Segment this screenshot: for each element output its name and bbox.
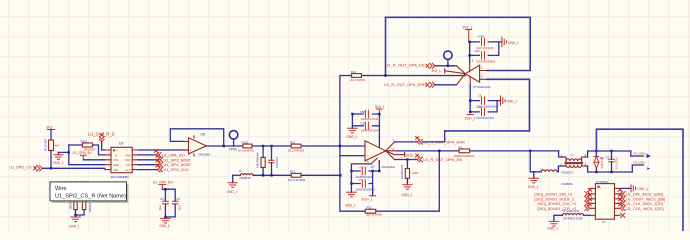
node 372.6,171 — [371, 170, 373, 172]
power port 3V3+_1 (below caps) — [362, 196, 376, 202]
svg-text:U1_OPA_5V: U1_OPA_5V — [73, 151, 93, 155]
svg-text:GND: GND — [113, 163, 119, 167]
net label U1_DOUT_/MCU — [618, 193, 665, 201]
wire net U1_SPI2_CS_R — [43, 167, 105, 169]
op-amp U8 — [183, 132, 210, 156]
wire R120 to U10 minus input — [252, 145, 365, 147]
wire U11 top cap rails — [470, 42, 499, 63]
net label U1_SPI2_MOSI — [138, 159, 190, 167]
wire 3V3 rail to caps — [352, 114, 379, 126]
svg-text:750315371: 750315371 — [561, 170, 575, 174]
svg-text:Wire: Wire — [55, 186, 67, 192]
diode D2 (TVS) — [594, 151, 604, 172]
capacitor C56 — [159, 197, 168, 211]
svg-text:L8 aeWKH224: L8 aeWKH224 — [563, 209, 580, 213]
node 469.7,55.4 — [469, 54, 471, 56]
ground GND_1 (U11 bottom, sideways) — [497, 96, 517, 105]
svg-text:2K2/1%/W68: 2K2/1%/W68 — [366, 213, 382, 217]
wire box2 loop (output pin2 of U11) — [445, 79, 530, 131]
node 165.4,189.2 — [164, 188, 166, 190]
svg-text:R1: R1 — [459, 145, 463, 149]
ground GND_1 (bottom left) — [69, 215, 80, 229]
wire secondary top rail — [585, 151, 631, 157]
svg-text:10uF/16V/1226: 10uF/16V/1226 — [356, 175, 374, 179]
ground GND_1 (below caps) — [345, 192, 356, 207]
svg-text:B: B — [116, 153, 118, 157]
svg-text:L?: L? — [571, 153, 575, 157]
resistor R126 100R — [400, 160, 418, 185]
svg-text:100nF/50V/0603: 100nF/50V/0603 — [476, 59, 496, 63]
svg-text:+C64: +C64 — [478, 35, 485, 39]
svg-text:4K7: 4K7 — [55, 144, 60, 148]
wire U12 pin to ground — [620, 187, 631, 189]
svg-text:OM9868A: OM9868A — [561, 182, 573, 186]
capacitor C61 — [351, 178, 375, 191]
svg-text:SMAJ5.0A: SMAJ5.0A — [601, 157, 604, 169]
resistor R115 0R1 — [69, 140, 105, 155]
svg-text:U1_SPI2_CS_R: U1_SPI2_CS_R — [10, 166, 37, 170]
node 470.2,111.9 — [469, 111, 471, 113]
capacitor C71 — [606, 151, 618, 172]
resistor R121 (vertical) — [256, 146, 266, 175]
svg-text:4.7uF/25V: 4.7uF/25V — [615, 157, 618, 169]
ground GND_1 (inductor) — [227, 175, 238, 194]
svg-text:[3K1]_3DV6/1_CLK_+3: [3K1]_3DV6/1_CLK_+3 — [538, 202, 576, 206]
svg-text:200R/1%/W0603: 200R/1%/W0603 — [454, 154, 475, 158]
power 3V3 — [46, 126, 55, 130]
node CS junction — [50, 167, 52, 169]
wire box1 loop (output pin1 of U11) — [386, 17, 531, 70]
net label U1_SPI2_MISO — [138, 154, 190, 162]
svg-text:ADAC7052RBZ: ADAC7052RBZ — [111, 175, 130, 179]
svg-text:U1_OPA_5V+: U1_OPA_5V+ — [153, 180, 174, 184]
capacitor C66 — [476, 93, 497, 108]
ground GND_1 (U11 top, sideways) — [499, 37, 519, 46]
ground GND_1 (left) — [53, 152, 64, 165]
svg-text:R12: R12 — [367, 206, 373, 210]
wire feedback loop U8 — [170, 129, 223, 146]
svg-text:SDI: SDI — [126, 163, 131, 167]
svg-text:U8: U8 — [201, 132, 205, 136]
wire secondary bottom rail — [585, 166, 633, 172]
svg-text:GND_1: GND_1 — [69, 225, 80, 229]
node junction 68.8,152.4 — [68, 151, 70, 153]
svg-text:U1_OPA_5V+: U1_OPA_5V+ — [162, 153, 186, 157]
svg-text:FERRITE: FERRITE — [240, 176, 251, 180]
svg-text:U? OPA4e622a: U? OPA4e622a — [473, 86, 491, 89]
svg-text:U1_SPI2_CLK: U1_SPI2_CLK — [164, 168, 189, 172]
node 596.4,172 — [595, 171, 597, 173]
svg-text:L6: L6 — [239, 169, 243, 173]
svg-text:+: + — [473, 78, 475, 82]
svg-text:U1_SPI2_CS_R (Net Name): U1_SPI2_CS_R (Net Name) — [55, 193, 126, 199]
ground GND_1 (L8) — [547, 221, 558, 230]
svg-text:10nF/50V: 10nF/50V — [275, 156, 279, 168]
harness arrow FV_GEN+ — [647, 154, 651, 158]
svg-text:U1_R_OUT_OPA_ERR: U1_R_OUT_OPA_ERR — [384, 82, 426, 87]
svg-text:A: A — [116, 148, 118, 152]
svg-text:U1_R_OUT_OPA_EN: U1_R_OUT_OPA_EN — [386, 63, 425, 68]
svg-text:100nF/50V/0603: 100nF/50V/0603 — [361, 129, 381, 133]
wire 3V3 to R116 — [50, 130, 52, 141]
svg-text:3V3+_1: 3V3+_1 — [362, 197, 373, 201]
node 271.5,146 — [270, 145, 272, 147]
svg-text:R120: R120 — [242, 140, 249, 144]
net label ISO_DIN (left row2) — [535, 189, 592, 197]
svg-text:R115: R115 — [81, 140, 88, 144]
svg-text:GND_1: GND_1 — [507, 100, 518, 104]
capacitor C57 — [172, 197, 181, 211]
test point TP23 — [444, 51, 452, 66]
net label U1_DIN_/MCU — [618, 189, 663, 197]
tooltip shadow — [52, 184, 129, 203]
net label U1_R_OUT_OPA_EN (top) — [386, 63, 435, 69]
node 611.5,151 — [610, 150, 612, 152]
svg-text:C7: C7 — [606, 156, 610, 160]
svg-text:TPT05914: TPT05914 — [596, 180, 609, 184]
power 3V3_1 (U11 supply) — [463, 26, 473, 42]
node 263.1,146 — [262, 145, 264, 147]
svg-text:FV_GEN-: FV_GEN- — [634, 161, 646, 165]
wire main row to transformer pin1 — [559, 151, 565, 157]
node 351.4,183.5 — [350, 182, 352, 184]
svg-text:3V3+_1: 3V3+_1 — [465, 116, 476, 120]
node 530.2,150.85 — [529, 150, 531, 152]
svg-text:GND_1: GND_1 — [345, 203, 356, 207]
net label U1_CLK_/MCU — [618, 198, 663, 206]
IC U12 isolator — [590, 180, 620, 224]
svg-text:C59: C59 — [360, 122, 365, 126]
svg-text:2K1/1%/0402: 2K1/1%/0402 — [238, 149, 255, 153]
inductor L7 — [540, 168, 557, 172]
net label U1_R_OUT_OPA_EN (middle) — [395, 154, 463, 162]
transformer T1 — [561, 153, 587, 186]
node 447.9,65.8 — [447, 65, 449, 67]
svg-text:U1_DIN_/MCU_1[DB]: U1_DIN_/MCU_1[DB] — [626, 193, 663, 197]
svg-text:OM-PBGA-BUM*: OM-PBGA-BUM* — [563, 217, 583, 221]
node 469.7,41.9 — [469, 41, 471, 43]
node 611.5,172 — [610, 171, 612, 173]
svg-text:Y: Y — [126, 148, 128, 152]
svg-text:GND_1: GND_1 — [402, 193, 413, 197]
op-amp U10 — [365, 138, 397, 169]
svg-text:+: + — [190, 149, 192, 153]
node 439.3,150.85 — [438, 150, 440, 152]
wire bottom rail — [253, 174, 291, 176]
svg-text:3V3_1: 3V3_1 — [375, 105, 385, 109]
svg-text:100R: 100R — [412, 171, 418, 175]
svg-text:U1_SPI2_MOSI: U1_SPI2_MOSI — [164, 163, 191, 167]
node 407.4,159.5 — [406, 158, 408, 160]
net label U1_R_OUT_OPA_ERR (top) — [384, 82, 435, 87]
wire resistors to ground — [76, 210, 85, 215]
svg-text:16V/W/1225: 16V/W/1225 — [400, 164, 404, 179]
capacitor C59 — [360, 122, 380, 133]
resistor R (below tooltip, left) — [69, 199, 78, 209]
node 165.4,216.9 — [164, 216, 166, 218]
svg-text:GND_1: GND_1 — [53, 161, 64, 165]
svg-text:R116 4K7: R116 4K7 — [44, 138, 48, 151]
wire main output row — [397, 150, 559, 152]
svg-text:+5V: +5V — [597, 187, 602, 190]
svg-text:+C?: +C? — [359, 166, 365, 170]
svg-text:U1_CLR_/MCU_1[3C]: U1_CLR_/MCU_1[3C] — [626, 207, 664, 211]
net label ISO_CLR (left row5) — [538, 203, 592, 211]
svg-text:GND_1: GND_1 — [547, 227, 558, 231]
svg-text:[3K1]_3DV6/1_DOUT_3: [3K1]_3DV6/1_DOUT_3 — [535, 198, 575, 202]
svg-text:U?: U? — [371, 165, 375, 169]
wire plus input from feedback — [340, 155, 365, 157]
wire V- rail — [351, 161, 379, 171]
resistor R123 — [288, 170, 306, 182]
svg-text:GND_1: GND_1 — [508, 41, 519, 45]
node 352.4,114 — [351, 113, 353, 115]
wire feedback ladder row — [340, 76, 465, 212]
ground GND_1 (R126) — [402, 185, 413, 198]
tooltip box — [50, 182, 127, 201]
svg-text:1K/0402: 1K/0402 — [88, 202, 92, 212]
wire L8 to ground — [554, 215, 563, 221]
resistor R120 — [238, 140, 255, 152]
net label U1_DAC_R_D — [88, 131, 115, 141]
svg-text:[3K1]_3DV6/1_DIN_+3: [3K1]_3DV6/1_DIN_+3 — [535, 193, 573, 197]
svg-text:1K1.5 Pc/W63: 1K1.5 Pc/W63 — [288, 178, 306, 182]
svg-text:R12: R12 — [290, 170, 296, 174]
svg-text:U1_SPI2_MISO: U1_SPI2_MISO — [164, 158, 191, 162]
svg-text:100n: 100n — [179, 204, 182, 210]
svg-text:GND_1: GND_1 — [528, 185, 539, 189]
wire R123 to feedback vertical — [301, 174, 340, 176]
node 379.3,171 — [378, 170, 380, 172]
wire EN to U11 input — [435, 65, 457, 67]
IC U9 DAC — [105, 141, 138, 179]
svg-text:U1_DOUT_/MCU_[DB]: U1_DOUT_/MCU_[DB] — [626, 197, 665, 201]
svg-text:1K1.5 W/063: 1K1.5 W/063 — [350, 78, 366, 82]
capacitor C65 — [475, 49, 496, 63]
wire Y output to op-amp U8 plus input — [138, 149, 188, 151]
node 470.2,100.6 — [469, 99, 471, 101]
ground GND_1 (5V caps) — [159, 217, 170, 228]
capacitor C63 (vertical) — [269, 146, 279, 175]
net label U1_OPA_5V+ — [138, 150, 186, 158]
svg-text:U?: U? — [602, 220, 606, 224]
svg-text:OPA2388A: OPA2388A — [199, 153, 211, 156]
pin lead (U11 input a) — [457, 66, 466, 74]
svg-text:U1_CLK_/MCU_1[3C]: U1_CLK_/MCU_1[3C] — [626, 202, 663, 206]
resistor R125 200R — [454, 145, 475, 158]
power port 3V3+_1 (U11 V-) — [465, 115, 476, 121]
ground GND_1 (U10 top cluster) — [346, 126, 357, 139]
svg-text:OPA4e622a: OPA4e622a — [382, 166, 396, 169]
node 339.9,146 — [339, 145, 341, 147]
svg-text:L7: L7 — [540, 168, 544, 172]
svg-text:CLK: CLK — [125, 168, 130, 172]
svg-text:C6: C6 — [478, 105, 482, 109]
capacitor C60 — [356, 166, 374, 179]
svg-text:GND_1: GND_1 — [638, 187, 649, 191]
svg-text:C?: C? — [359, 178, 363, 182]
svg-text:TP24: TP24 — [229, 147, 237, 151]
power 3V3_1 (U10 supply) — [375, 105, 385, 114]
svg-text:C65: C65 — [475, 49, 480, 53]
svg-text:GND_1: GND_1 — [227, 190, 238, 194]
wire U10 V- pin — [351, 164, 371, 192]
node 223.7,146 — [223, 145, 225, 147]
resistor R116 4K7 — [44, 138, 60, 151]
power port U1_OPA_5V+ (caps cluster) — [153, 180, 174, 189]
node 351.4,171 — [350, 170, 352, 172]
net label ISO_DOUT (left row3) — [535, 193, 592, 201]
resistor R122 — [288, 140, 305, 152]
wire output FV_GEN- — [632, 165, 643, 172]
wire U8 output — [206, 145, 243, 147]
ground GND_1 (U12, sideways) — [631, 185, 648, 192]
svg-text:C5: C5 — [177, 197, 181, 201]
svg-text:3V3_1: 3V3_1 — [432, 69, 441, 73]
svg-text:-: - — [190, 140, 191, 144]
svg-text:U9: U9 — [119, 141, 123, 145]
wire U11 V- cluster rails — [470, 85, 497, 112]
svg-text:16K/1%/0402: 16K/1%/0402 — [256, 152, 260, 168]
wire feedback vertical (long) — [385, 17, 387, 75]
wire 5V to VDD pin — [83, 159, 105, 161]
net label ISO_CLK (left row4) — [538, 198, 592, 206]
svg-text:16nF/50V/1210: 16nF/50V/1210 — [476, 116, 494, 120]
pin lead (U11 input b) — [457, 74, 466, 85]
svg-text:C1R: C1R — [113, 168, 118, 172]
wire R116 to CS net — [50, 151, 52, 169]
svg-text:GND_1: GND_1 — [159, 224, 170, 228]
capacitor C64 — [476, 35, 494, 50]
svg-text:C6: C6 — [478, 93, 482, 97]
net label U1_R_OUT_OPA_ERR (middle) — [395, 137, 466, 145]
wire 5V cap rail — [162, 189, 175, 217]
net label U1_SPI2_CLK — [138, 164, 188, 172]
wire isolation loop — [596, 129, 683, 231]
svg-text:10uF/16V/1210: 10uF/16V/1210 — [361, 117, 379, 121]
op-amp U11 (mirrored) — [465, 59, 490, 89]
node 263.1,175.3 — [262, 174, 264, 176]
test point TP24 — [229, 131, 238, 152]
svg-text:2K1/1%/0402: 2K1/1%/0402 — [288, 149, 305, 153]
node 596.4,151 — [595, 150, 597, 152]
svg-text:C5: C5 — [160, 197, 164, 201]
svg-text:10uF: 10uF — [159, 204, 162, 210]
inductor L6 — [233, 169, 253, 180]
resistor R (below tooltip, right) — [82, 200, 91, 213]
node 271.5,175.3 — [270, 174, 272, 176]
wire L8 to U12 pin — [584, 214, 591, 216]
capacitor C67 — [476, 105, 494, 120]
node 340.4,175.3 — [339, 174, 341, 176]
wire primary return via inductor — [530, 151, 565, 172]
svg-text:VDD: VDD — [125, 153, 131, 157]
resistor R127 (bottom) — [365, 206, 382, 217]
svg-text:VSS: VSS — [113, 158, 118, 162]
svg-text:C58: C58 — [360, 110, 365, 114]
power pin 3V3+_1 (U10) — [395, 153, 418, 158]
wire cap rail to power bar — [372, 171, 374, 196]
node 75.5,215 — [74, 214, 76, 216]
svg-text:R12: R12 — [290, 140, 296, 144]
svg-text:+: + — [367, 154, 369, 158]
net label U1_CLR_/MCU — [618, 203, 663, 211]
svg-text:FV_GEN+: FV_GEN+ — [634, 152, 647, 156]
wire output FV_GEN+ — [631, 151, 644, 156]
net label U1_SPI2_CS_R — [10, 165, 43, 171]
wire ERR to U11 input — [435, 84, 457, 86]
wire ERR vertical from box2 — [423, 131, 445, 142]
wire V+ to U10 — [378, 126, 380, 147]
no-ERC cross — [621, 213, 625, 217]
wire vertical to GND pin — [69, 145, 105, 165]
capacitor C58 — [360, 110, 379, 121]
svg-text:GND_1: GND_1 — [346, 135, 357, 139]
resistor R124 — [350, 70, 366, 82]
node 379.4,114 — [378, 113, 380, 115]
wire ground to junction — [58, 151, 68, 153]
power port U1_OPA_5V — [73, 151, 93, 160]
svg-text:R12: R12 — [351, 70, 357, 74]
svg-text:SDO: SDO — [125, 158, 131, 162]
wire DAC_R_D to pin A — [102, 142, 105, 151]
inductor L8 (U12 input) — [562, 209, 583, 221]
power pin 3V3_1 (U11 left) — [432, 69, 466, 74]
node 385.5,75.5 — [384, 74, 386, 76]
harness arrow FV_GEN- — [647, 167, 650, 170]
ground GND_1 (primary) — [528, 172, 539, 189]
